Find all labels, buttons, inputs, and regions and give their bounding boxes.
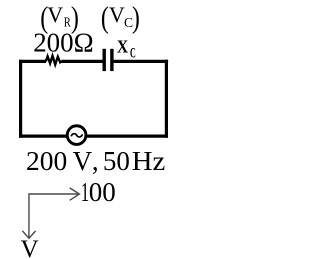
svg-text:C: C	[130, 45, 136, 61]
label (VC)	[101, 0, 140, 34]
wire top segment right	[114, 60, 169, 63]
wire bottom segment left	[19, 135, 67, 138]
arrowhead down	[22, 231, 35, 238]
label 100	[81, 177, 116, 207]
wire left side	[19, 60, 22, 138]
annotation L line	[29, 194, 79, 237]
arrowhead right	[70, 188, 80, 200]
capacitor left plate	[102, 49, 105, 71]
svg-text:Hz: Hz	[132, 146, 166, 176]
svg-text:50: 50	[103, 146, 130, 176]
AC source circle	[67, 126, 86, 145]
svg-text:V: V	[47, 2, 63, 27]
AC source sine symbol	[71, 134, 82, 137]
svg-text:200: 200	[26, 146, 67, 176]
label (VR)	[40, 0, 79, 34]
svg-text:V: V	[21, 236, 39, 259]
svg-text:): )	[132, 0, 140, 34]
wire right side	[165, 60, 168, 138]
wire top segment left	[19, 60, 46, 63]
svg-text:V: V	[73, 146, 93, 176]
svg-text:,: ,	[92, 146, 99, 176]
svg-text:V: V	[109, 2, 125, 27]
label XC	[117, 37, 136, 62]
svg-text:(: (	[101, 0, 109, 34]
capacitor right plate	[110, 49, 113, 71]
svg-text:200Ω: 200Ω	[33, 27, 93, 57]
wire bottom segment right	[87, 135, 168, 138]
wire top segment middle	[62, 60, 103, 63]
resistor R zigzag	[46, 56, 62, 65]
svg-text:X: X	[117, 37, 128, 57]
svg-text:00: 00	[89, 177, 116, 207]
